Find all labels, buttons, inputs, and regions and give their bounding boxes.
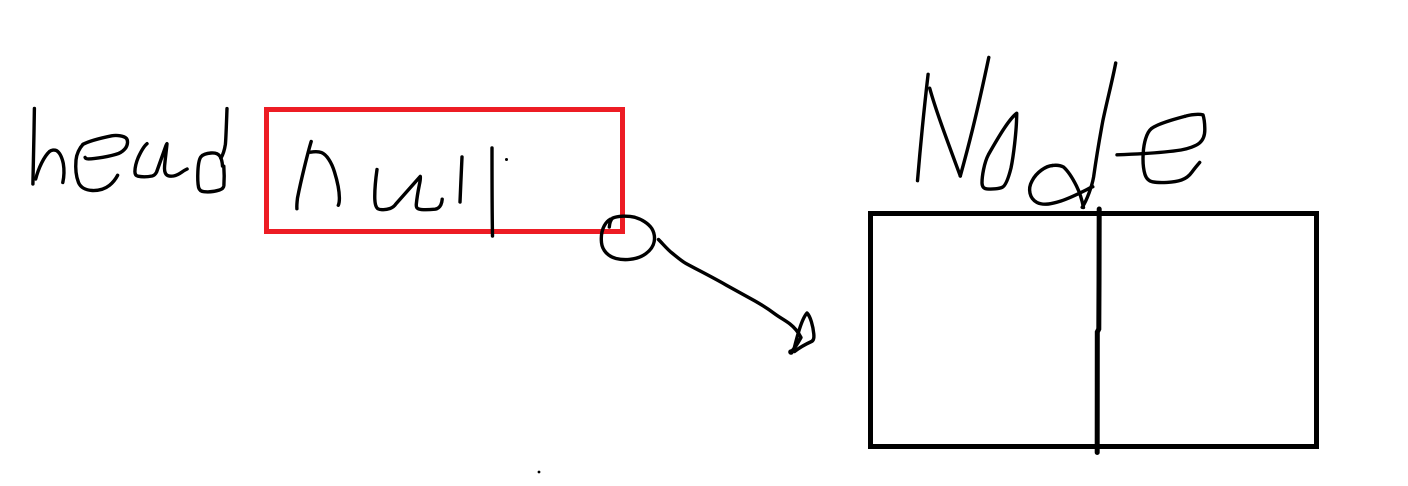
pointer origin circle at box corner — [601, 216, 654, 259]
label "Node" letter d bowl dome and right side — [1053, 165, 1084, 207]
stray dot near null — [505, 158, 508, 161]
label "Node" letter N diagonal — [930, 88, 961, 176]
label "head" letter h hump — [36, 150, 64, 182]
value "null" letter l first — [460, 157, 462, 202]
label "head" letter e eye loop — [83, 135, 128, 158]
label "head" letter e lower curve — [76, 144, 118, 190]
label "Node" letter e crossbar merging into right side and top — [1117, 114, 1205, 154]
label "Node" letter d bowl left bottom and tail — [1030, 166, 1093, 205]
arrowhead tip blob — [788, 349, 794, 355]
value "null" letter u zigzag — [375, 170, 442, 210]
label "Node" letter N left stroke — [918, 74, 929, 180]
value "null" letter n left stroke — [297, 142, 311, 209]
label "Node" letter o — [982, 113, 1017, 189]
value "null" letter l second (crosses box edge) — [490, 148, 494, 236]
node box divider line — [1097, 209, 1099, 453]
label "head" letter h stem — [33, 108, 35, 184]
arrowhead — [794, 313, 814, 352]
stray dot bottom center — [538, 471, 541, 474]
label "head" letter d stem — [221, 109, 227, 159]
label "head" letter a single stroke — [135, 144, 187, 177]
label "head" letter d bowl — [198, 153, 224, 192]
label "Node" letter d stem — [1082, 63, 1116, 207]
head pointer box (red rectangle) — [267, 110, 623, 232]
value "null" letter n arc — [311, 152, 340, 205]
arrow shaft wire — [659, 240, 802, 353]
label "Node" letter N right stroke — [960, 57, 989, 176]
node box (black rectangle) — [871, 214, 1317, 447]
label "Node" letter e left loop and tail — [1143, 116, 1200, 182]
